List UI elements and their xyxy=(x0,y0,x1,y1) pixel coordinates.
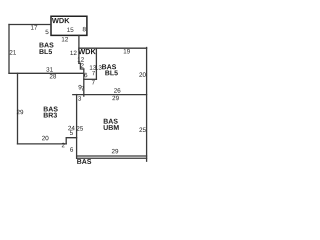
wire right wall xyxy=(146,48,148,162)
room BAS BL5 left B xyxy=(40,49,53,54)
dim 12 below deck xyxy=(62,37,68,41)
wire UBM top wall xyxy=(73,94,147,96)
dim 24 xyxy=(68,126,75,130)
room BAS BL5 left A xyxy=(40,43,54,48)
room BAS BL5 right B xyxy=(105,71,118,76)
dim 6 strip left xyxy=(70,147,73,152)
wire strip top xyxy=(77,155,147,157)
deck WDK box xyxy=(51,16,87,35)
dim 29 below UBM top xyxy=(112,96,118,101)
wire BR3 jog xyxy=(66,138,76,144)
dim 20 BR3 xyxy=(42,136,49,141)
dim 29 strip xyxy=(112,149,118,154)
dim 12 left of WDK2 xyxy=(70,51,76,55)
dim 25 left xyxy=(77,126,83,131)
wire left wall BL5 xyxy=(8,25,10,74)
dim 13 left xyxy=(90,65,96,70)
dim 7 upper xyxy=(92,71,95,75)
dim 2 BR3 step xyxy=(62,143,65,147)
wire connector below WDK xyxy=(78,35,80,63)
dim 2 stair xyxy=(81,63,84,67)
wire stair wall xyxy=(83,69,85,96)
label WDK 2 xyxy=(78,49,96,54)
dim 21 xyxy=(10,50,16,54)
dim 25 right xyxy=(139,128,145,133)
wire stair jog xyxy=(79,63,84,69)
dim 17 xyxy=(31,25,37,29)
wire bottom wall BL5 xyxy=(9,72,84,74)
wire BR3 bottom wall xyxy=(18,143,67,145)
dim 8 xyxy=(83,27,86,32)
dim 5 deck left xyxy=(46,30,49,34)
wire BR3 left wall xyxy=(17,73,19,144)
label WDK deck xyxy=(52,18,70,23)
room BAS BL5 right A xyxy=(102,64,116,69)
wire stair bottom xyxy=(84,78,97,80)
dim 15 xyxy=(67,28,73,32)
dim 19 xyxy=(124,49,130,54)
dim 29 BR3 left xyxy=(17,110,23,115)
dim 9 xyxy=(79,85,82,90)
room BAS UBM B xyxy=(104,125,119,130)
room BAS strip xyxy=(77,159,91,164)
dim 3 xyxy=(78,96,81,101)
wire top wall BL5 xyxy=(9,24,51,26)
wire top wall right room xyxy=(79,47,147,49)
dim 20 right wall xyxy=(139,72,146,77)
dim 31 xyxy=(46,67,53,72)
room BAS UBM A xyxy=(104,119,118,124)
dim 26 xyxy=(114,88,120,93)
dim 6 stair xyxy=(84,73,87,78)
dim 28 xyxy=(50,74,56,79)
dim 12 below WDK2 xyxy=(78,57,84,61)
dim 7 below stair xyxy=(92,80,95,84)
wire strip bottom xyxy=(77,157,147,159)
dim 7 beside 9 xyxy=(81,86,84,90)
room BAS BR3 B xyxy=(44,113,57,118)
room BAS BR3 A xyxy=(44,107,58,112)
dim 5 lower xyxy=(70,131,73,135)
wire mid wall xyxy=(95,48,97,79)
wire UBM left wall xyxy=(76,95,78,159)
dim 13 right xyxy=(95,65,101,70)
